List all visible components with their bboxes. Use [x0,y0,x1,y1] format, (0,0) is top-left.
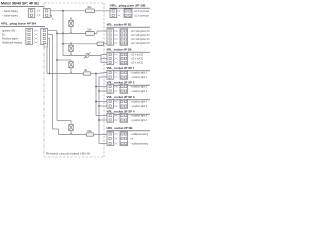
svg-text:+12 V with ignition ON: +12 V with ignition ON [131,37,150,41]
svg-text:– position light 2: – position light 2 [131,89,148,93]
svg-text:+12 V continuous: +12 V continuous [134,14,150,18]
svg-text:Motor 96/49 SP; 4P B1: Motor 96/49 SP; 4P B1 [1,1,39,5]
svg-text:+12 V at K15: +12 V at K15 [131,61,144,65]
svg-text:Position lights: Position lights [2,37,19,41]
svg-text:VRL_socket 4P B1: VRL_socket 4P B1 [107,23,132,27]
svg-text:VRL_plug pair 2P SB: VRL_plug pair 2P SB [110,4,146,8]
svg-text:– additional heating: – additional heating [131,142,149,146]
svg-text:15A: 15A [87,29,92,32]
svg-text:+ position light 3: + position light 3 [131,100,148,104]
svg-text:8A: 8A [84,69,87,72]
svg-text:Ignition ON: Ignition ON [2,29,15,33]
svg-text:VRL_plug base 4P B4: VRL_plug base 4P B4 [1,22,36,26]
svg-text:VRL_socket 2P SP 3: VRL_socket 2P SP 3 [107,95,135,99]
svg-text:+ position light 4: + position light 4 [131,114,148,118]
svg-text:+ additional heating: + additional heating [131,132,149,136]
svg-text:HRL: HRL [87,130,92,133]
svg-text:30A: 30A [87,6,92,9]
svg-text:D+: D+ [2,33,6,37]
svg-text:– position light 3: – position light 3 [131,104,148,108]
svg-text:– Starter battery: – Starter battery [2,13,19,17]
svg-text:– Starter battery: – Starter battery [2,9,19,13]
svg-text:+12 V continuous: +12 V continuous [134,9,150,13]
svg-text:+ position light 2: + position light 2 [131,85,148,89]
svg-text:– position light 4: – position light 4 [131,118,148,122]
svg-text:+12 V at K15: +12 V at K15 [131,57,144,61]
svg-text:Additional heating: Additional heating [2,41,22,45]
svg-text:+12 V with ignition ON: +12 V with ignition ON [131,33,150,37]
svg-text:VRL_socket 2P SP 1: VRL_socket 2P SP 1 [107,66,135,70]
svg-text:Printed circuit board HD-III: Printed circuit board HD-III [46,152,90,156]
svg-text:HRL_socket 2P SB: HRL_socket 2P SB [107,126,133,130]
svg-text:+12 V at K15: +12 V at K15 [131,53,144,57]
svg-text:+12 V with ignition ON: +12 V with ignition ON [131,29,150,33]
svg-text:+12 V with ignition ON: +12 V with ignition ON [131,41,150,45]
svg-text:– position light 1: – position light 1 [131,75,148,79]
svg-text:+ position light 1: + position light 1 [131,71,148,75]
svg-text:XRL_socket 4P SB: XRL_socket 4P SB [107,48,132,52]
